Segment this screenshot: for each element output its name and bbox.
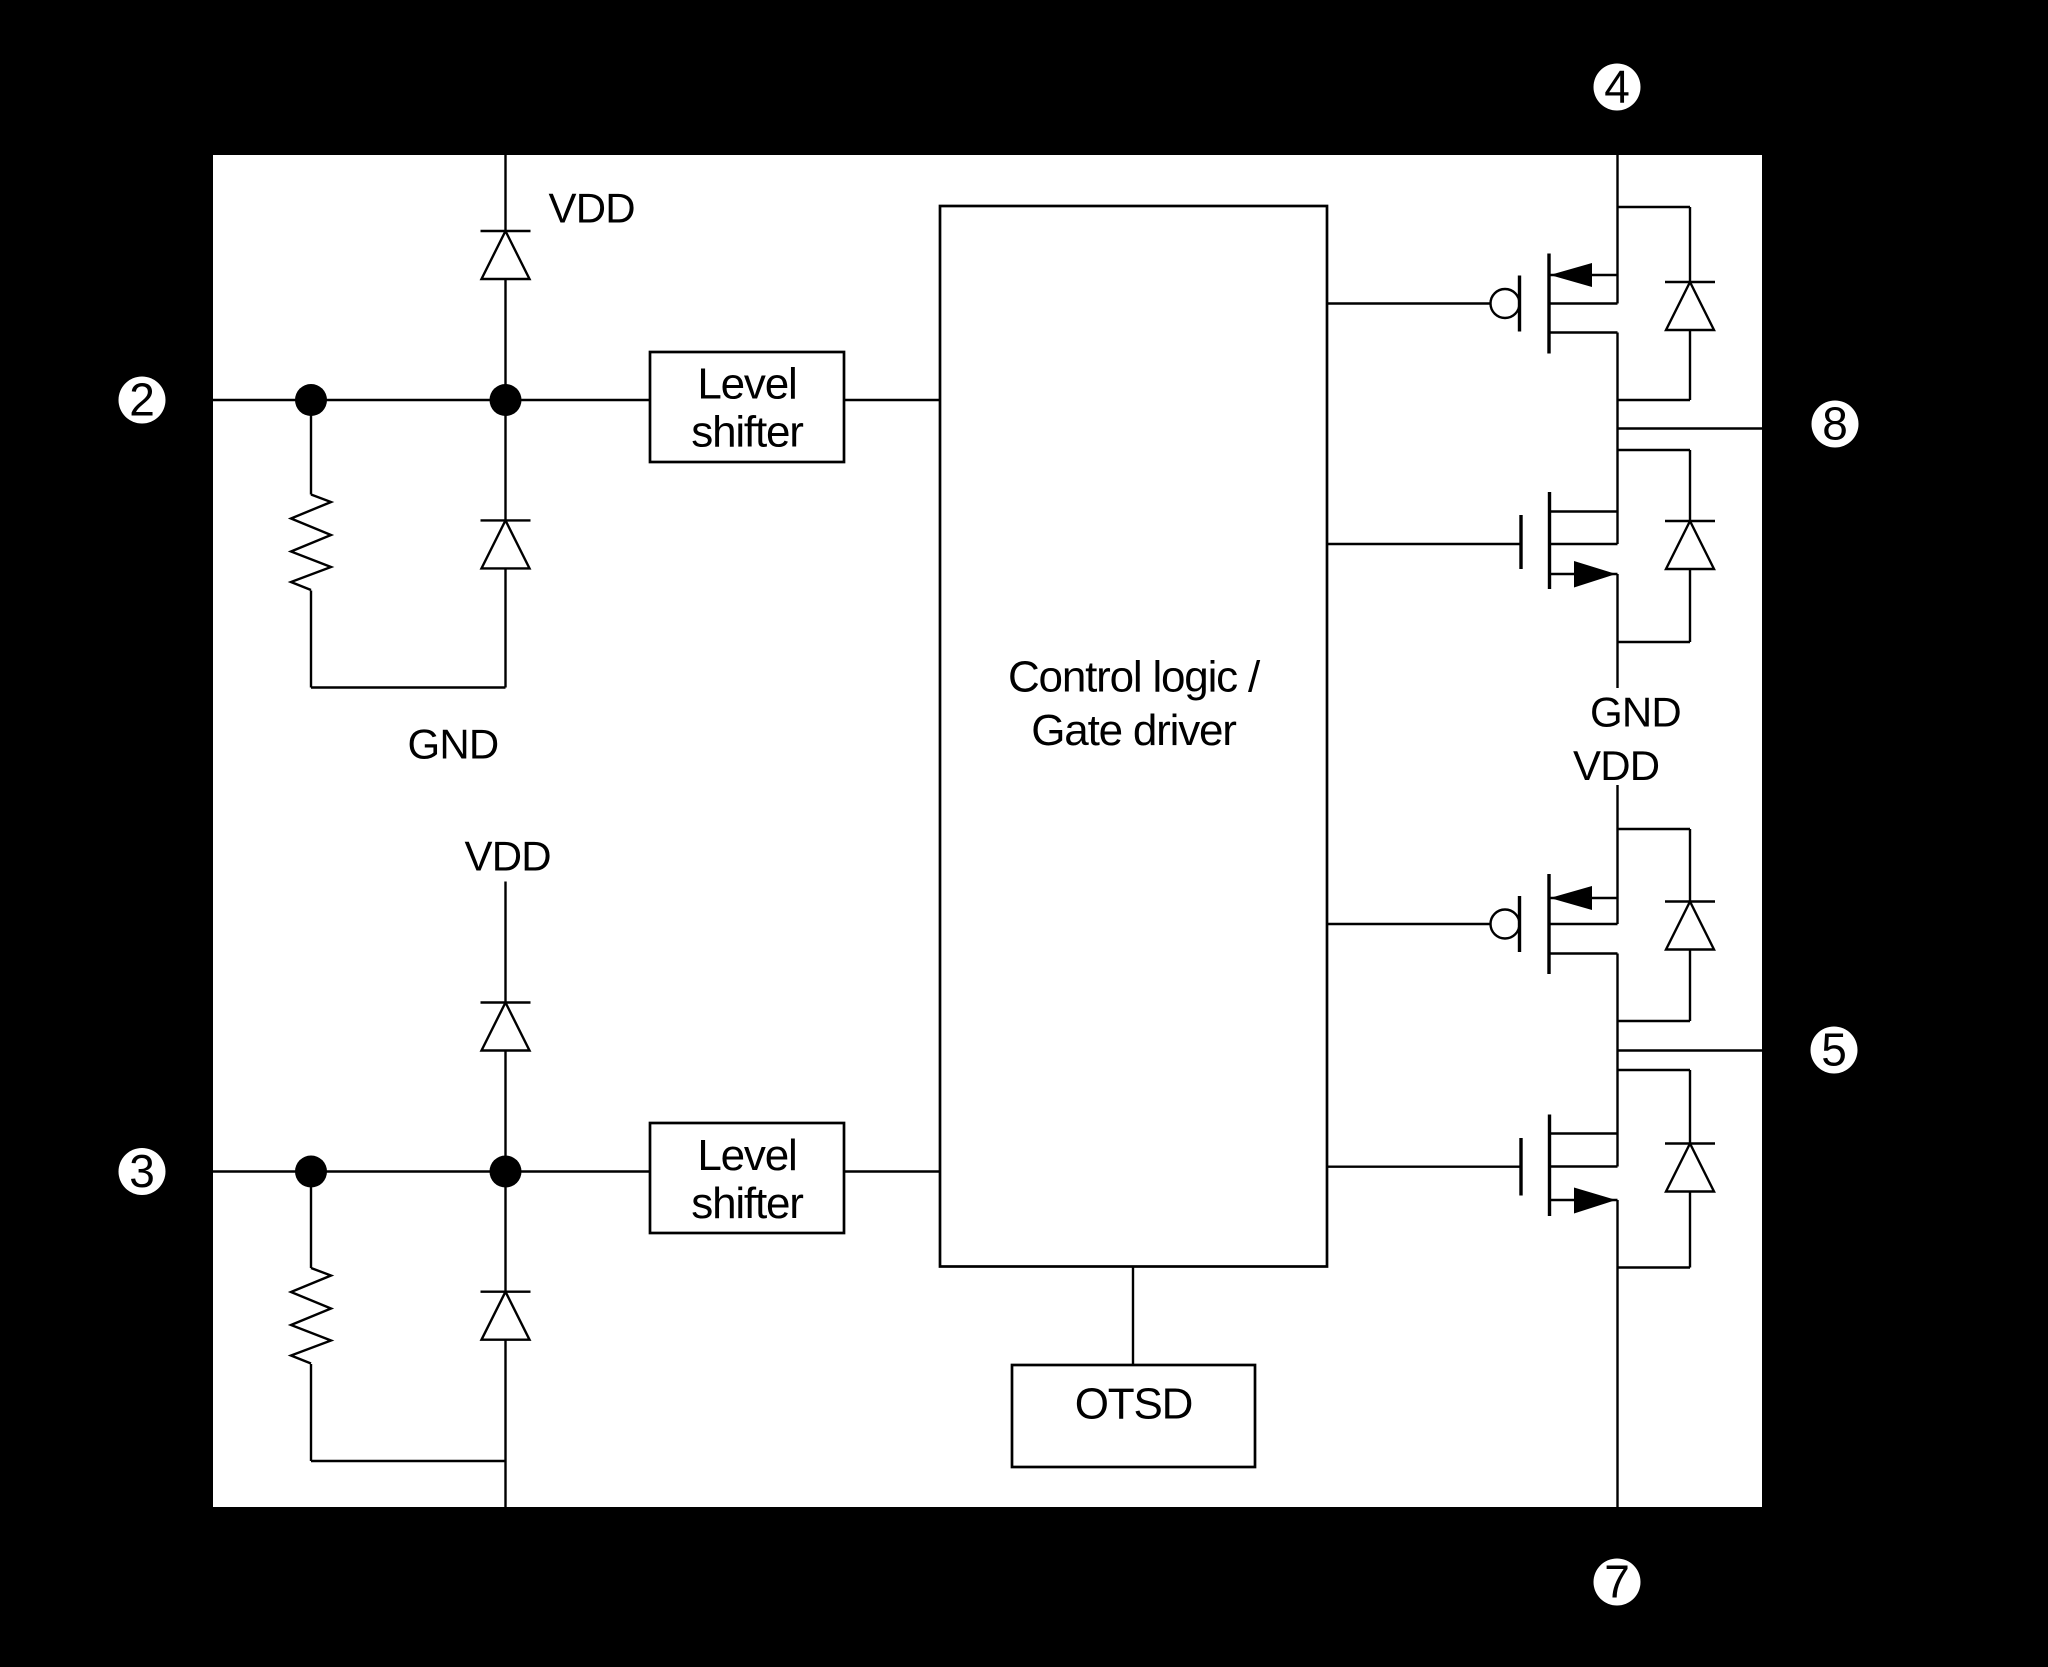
wire: Q1 gate from U1	[1327, 302, 1491, 304]
wire: VM rail from top edge to Q1 source/body	[1616, 155, 1618, 304]
diode D1 (IN1 clamp to VDD)	[481, 231, 531, 400]
svg-text:GND: GND	[1590, 689, 1681, 736]
diode D4 (IN2 clamp to GND)	[481, 1172, 531, 1462]
wire: U1 to OTSD	[1132, 1267, 1134, 1366]
wire: Q2 body-diode bottom tee	[1618, 641, 1691, 643]
svg-text:VDD: VDD	[1573, 742, 1659, 789]
wire: Q4 source to bottom edge (pin 7)	[1616, 1200, 1618, 1507]
diode D7 (Q3 body diode)	[1665, 829, 1715, 1021]
wire: OUT2 to pin 5	[1618, 1049, 1763, 1051]
svg-text:7: 7	[1604, 1556, 1630, 1608]
level shifter U2 (IN1)	[650, 352, 844, 462]
level shifter U3 (IN2)	[650, 1123, 844, 1233]
wire: Q2 body-diode top tee	[1618, 449, 1691, 451]
wire: U3 to control logic	[844, 1170, 940, 1172]
svg-text:shifter: shifter	[691, 1179, 803, 1228]
IC boundary	[213, 155, 1762, 1507]
pin 5 (OUT2)	[1811, 1024, 1858, 1076]
svg-text:shifter: shifter	[691, 408, 803, 457]
pin 4 (VM)	[1594, 61, 1641, 113]
wire: Q1 drain rail down to Q2	[1616, 333, 1618, 545]
diode D5 (Q1 body diode)	[1665, 207, 1715, 400]
wire: Q3 body-diode top tee	[1618, 828, 1691, 830]
resistor R2 (IN2 pulldown)	[291, 1172, 331, 1462]
wire: OUT1 to pin 8	[1618, 427, 1763, 429]
wire: VDD clamp rail IN1 (top)	[504, 155, 506, 231]
pin 7 (GND)	[1594, 1556, 1641, 1608]
svg-text:GND: GND	[408, 721, 499, 768]
control logic / gate driver U1	[940, 206, 1327, 1267]
svg-text:3: 3	[129, 1145, 155, 1197]
svg-text:2: 2	[129, 374, 155, 426]
wire: U2 to control logic	[844, 399, 940, 401]
node: IN1 junction at resistor	[295, 384, 327, 416]
svg-text:Gate driver: Gate driver	[1031, 706, 1236, 755]
wire: IN2 clamp rail to bottom edge	[504, 1461, 506, 1507]
wire: Q2 gate from U1	[1327, 543, 1520, 545]
svg-text:Level: Level	[697, 360, 796, 409]
wire: IN1 row from box edge to level shifter	[213, 399, 650, 401]
wire: Q3 gate from U1	[1327, 923, 1491, 925]
wire: R1/D2 common to GND	[311, 686, 506, 688]
wire: Q3 body-diode bottom tee	[1618, 1020, 1691, 1022]
wire: Q2 source to GND label	[1616, 574, 1618, 688]
wire: VDD rail to Q3 source/body	[1616, 785, 1618, 924]
svg-text:VDD: VDD	[549, 185, 635, 232]
transistor Q4 (low-side NMOS, OUT2)	[1521, 1115, 1618, 1217]
diode D2 (IN1 clamp to GND)	[481, 400, 531, 688]
wire: Q4 body-diode top tee	[1618, 1069, 1691, 1071]
wire: R2/D4 common	[311, 1460, 506, 1462]
pin 3 (IN2)	[119, 1145, 166, 1197]
wire: Q1 body-diode bottom tee	[1618, 399, 1691, 401]
wire: IN2 row from box edge to level shifter	[213, 1170, 650, 1172]
wire: Q4 gate from U1	[1327, 1165, 1521, 1167]
wire: Q1 body-diode top tee	[1618, 206, 1691, 208]
transistor Q2 (low-side NMOS, OUT1)	[1521, 492, 1618, 589]
node: IN1 junction at clamp diodes	[490, 384, 522, 416]
diode D8 (Q4 body diode)	[1665, 1070, 1715, 1268]
svg-text:4: 4	[1604, 61, 1630, 113]
svg-text:Level: Level	[697, 1131, 796, 1180]
svg-text:Control logic /: Control logic /	[1008, 653, 1261, 702]
svg-text:5: 5	[1821, 1024, 1847, 1076]
OTSD block U4	[1012, 1365, 1255, 1467]
resistor R1 (IN1 pulldown)	[291, 400, 331, 688]
svg-text:8: 8	[1822, 398, 1848, 450]
wire: Q3 drain rail down to Q4	[1616, 954, 1618, 1167]
svg-text:OTSD: OTSD	[1075, 1380, 1192, 1429]
transistor Q3 (high-side PMOS, OUT2)	[1491, 874, 1618, 974]
transistor Q1 (high-side PMOS, OUT1)	[1491, 254, 1618, 354]
node: IN2 junction at resistor	[295, 1156, 327, 1188]
svg-text:VDD: VDD	[465, 833, 551, 880]
pin 8 (OUT1)	[1812, 398, 1859, 450]
diode D6 (Q2 body diode)	[1665, 450, 1715, 642]
diode D3 (IN2 clamp to VDD)	[481, 882, 531, 1172]
node: IN2 junction at clamp diodes	[490, 1156, 522, 1188]
pin 2 (IN1)	[119, 374, 166, 426]
wire: Q4 body-diode bottom tee	[1618, 1266, 1691, 1268]
